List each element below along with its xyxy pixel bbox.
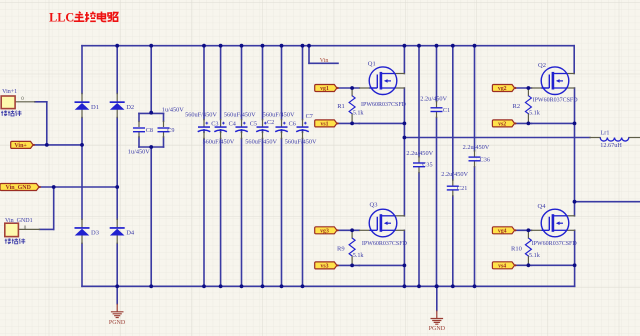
svg-text:C6: C6 bbox=[289, 120, 296, 127]
svg-text:IPW60R037CSFD: IPW60R037CSFD bbox=[532, 241, 578, 247]
svg-text:C8: C8 bbox=[146, 127, 153, 134]
svg-text:C3: C3 bbox=[211, 120, 218, 127]
svg-text:vg3: vg3 bbox=[320, 228, 329, 234]
svg-text:Q3: Q3 bbox=[370, 202, 378, 209]
svg-text:C1: C1 bbox=[443, 107, 450, 114]
svg-text:vs3: vs3 bbox=[320, 263, 328, 269]
svg-text:560uF/450V: 560uF/450V bbox=[245, 139, 277, 146]
svg-text:560uF/450V: 560uF/450V bbox=[285, 139, 317, 146]
svg-text:560uF/450V: 560uF/450V bbox=[185, 112, 217, 119]
svg-text:Q1: Q1 bbox=[368, 61, 376, 68]
svg-text:R10: R10 bbox=[511, 245, 522, 252]
svg-text:D2: D2 bbox=[126, 104, 134, 111]
svg-text:vg4: vg4 bbox=[498, 228, 507, 234]
svg-text:C9: C9 bbox=[167, 127, 174, 134]
svg-text:Vin+: Vin+ bbox=[14, 143, 27, 149]
svg-text:D3: D3 bbox=[91, 230, 99, 237]
svg-text:Q4: Q4 bbox=[538, 203, 547, 210]
svg-text:5.1k: 5.1k bbox=[529, 110, 541, 117]
svg-text:Lr1: Lr1 bbox=[601, 129, 610, 136]
svg-text:2.2u/450V: 2.2u/450V bbox=[441, 171, 468, 178]
svg-text:vs1: vs1 bbox=[320, 121, 328, 127]
svg-text:C35: C35 bbox=[422, 162, 432, 169]
svg-text:IPW60R037CSFD: IPW60R037CSFD bbox=[362, 241, 408, 247]
svg-text:C4: C4 bbox=[229, 120, 236, 127]
svg-text:5.1k: 5.1k bbox=[353, 252, 365, 259]
svg-text:1u/450V: 1u/450V bbox=[128, 148, 150, 155]
svg-text:5.1k: 5.1k bbox=[529, 252, 541, 259]
svg-text:C36: C36 bbox=[480, 157, 490, 164]
svg-text:LLC: LLC bbox=[49, 11, 74, 25]
svg-text:R9: R9 bbox=[337, 245, 345, 252]
svg-text:IPW60R037CSFD: IPW60R037CSFD bbox=[361, 102, 407, 108]
svg-text:C21: C21 bbox=[457, 185, 467, 192]
svg-text:vs4: vs4 bbox=[498, 263, 506, 269]
svg-text:R1: R1 bbox=[337, 103, 345, 110]
svg-text:5.1k: 5.1k bbox=[353, 110, 365, 117]
svg-text:vs2: vs2 bbox=[498, 121, 506, 127]
svg-text:C2: C2 bbox=[267, 119, 274, 126]
svg-text:R2: R2 bbox=[513, 103, 521, 110]
svg-text:C5: C5 bbox=[250, 120, 257, 127]
svg-text:Vin_GND1: Vin_GND1 bbox=[5, 218, 33, 224]
svg-text:2.2u/450V: 2.2u/450V bbox=[406, 150, 433, 157]
svg-text:560uF/450V: 560uF/450V bbox=[224, 112, 256, 119]
svg-text:1u/450V: 1u/450V bbox=[162, 107, 184, 114]
svg-text:C7: C7 bbox=[306, 113, 313, 120]
svg-text:Vin_GND: Vin_GND bbox=[5, 185, 31, 191]
svg-text:Vin: Vin bbox=[320, 58, 329, 64]
svg-text:2.2u/450V: 2.2u/450V bbox=[420, 96, 447, 103]
svg-text:PGND: PGND bbox=[109, 320, 126, 326]
svg-text:IPW60R037CSFD: IPW60R037CSFD bbox=[533, 98, 579, 104]
svg-text:PGND: PGND bbox=[429, 326, 446, 332]
svg-text:Q2: Q2 bbox=[538, 62, 546, 69]
svg-text:D1: D1 bbox=[91, 104, 99, 111]
svg-text:12.67uH: 12.67uH bbox=[600, 142, 622, 149]
svg-text:560uF/450V: 560uF/450V bbox=[202, 139, 234, 146]
svg-text:Vin+1: Vin+1 bbox=[2, 89, 17, 95]
svg-text:560uF/450V: 560uF/450V bbox=[263, 112, 295, 119]
svg-text:2.2u/450V: 2.2u/450V bbox=[463, 144, 490, 151]
svg-text:D4: D4 bbox=[126, 230, 135, 237]
svg-text:vg2: vg2 bbox=[498, 86, 507, 92]
svg-text:vg1: vg1 bbox=[320, 86, 329, 92]
